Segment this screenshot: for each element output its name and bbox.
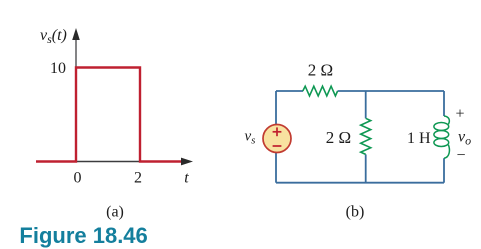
svg-text:2 Ω: 2 Ω (326, 128, 351, 147)
svg-text:2 Ω: 2 Ω (308, 61, 333, 80)
svg-text:10: 10 (50, 60, 66, 77)
svg-text:vs(t): vs(t) (40, 27, 67, 46)
svg-text:vs: vs (245, 129, 256, 147)
svg-text:(b): (b) (346, 204, 365, 221)
svg-text:1 H: 1 H (407, 130, 431, 147)
svg-text:−: − (456, 147, 465, 164)
svg-text:+: + (455, 106, 464, 123)
svg-text:(a): (a) (106, 204, 124, 221)
svg-text:vo: vo (458, 129, 471, 148)
svg-text:Figure 18.46: Figure 18.46 (19, 223, 147, 248)
svg-text:t: t (184, 170, 189, 187)
svg-text:2: 2 (134, 170, 142, 187)
svg-text:0: 0 (74, 170, 82, 187)
